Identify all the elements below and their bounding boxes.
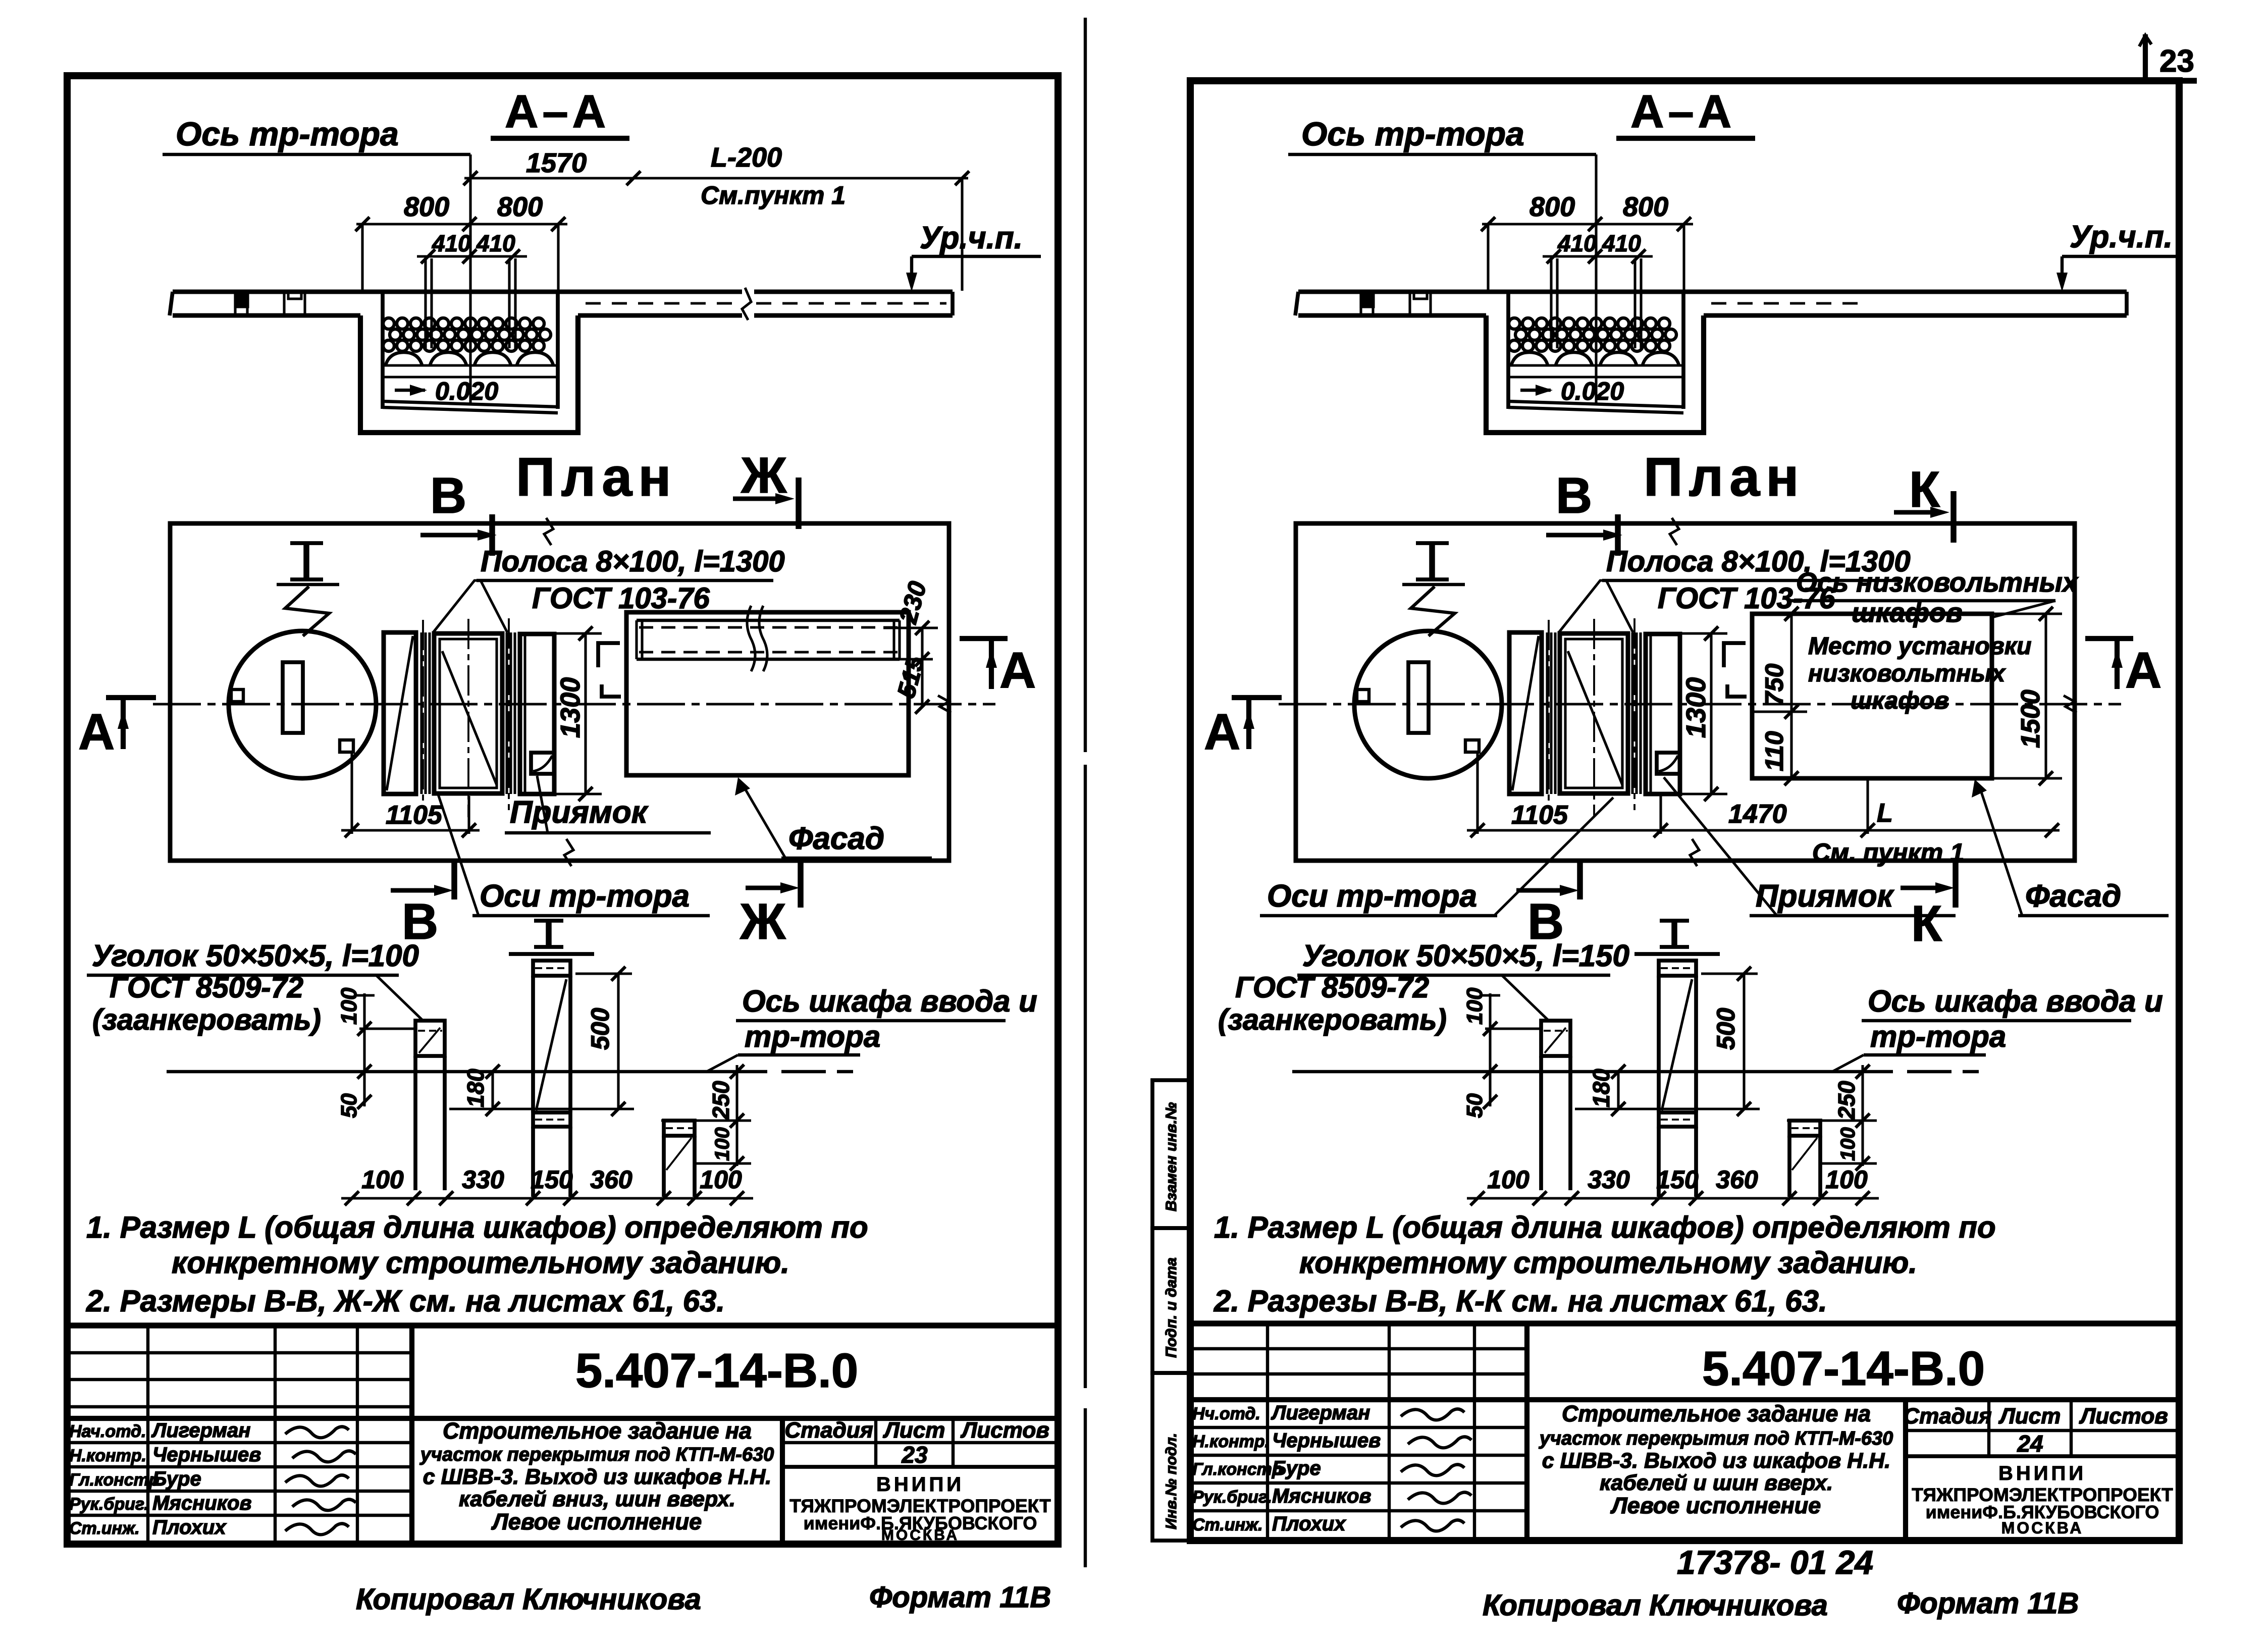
svg-text:конкретному строительному зада: конкретному строительному заданию. — [172, 1246, 789, 1280]
sheet 2 border frame — [1190, 81, 2179, 1541]
svg-text:Нач.отд.: Нач.отд. — [69, 1422, 146, 1441]
svg-text:Мясников: Мясников — [1272, 1485, 1372, 1507]
svg-text:Стадия: Стадия — [1903, 1404, 1991, 1428]
svg-text:23: 23 — [901, 1442, 928, 1468]
detail view left — [92, 961, 1037, 1205]
svg-text:МОСКВА: МОСКВА — [881, 1527, 959, 1544]
svg-text:Левое исполнение: Левое исполнение — [491, 1509, 702, 1534]
dims 230 and 515 — [921, 628, 923, 707]
svg-text:Ось низковольтных: Ось низковольтных — [1796, 567, 2079, 598]
svg-text:участок перекрытия под КТП-М-6: участок перекрытия под КТП-М-630 — [1539, 1428, 1893, 1449]
svg-text:Листов: Листов — [960, 1418, 1049, 1443]
svg-text:Буре: Буре — [152, 1468, 201, 1490]
svg-text:1105: 1105 — [386, 801, 443, 830]
svg-text:Лигерман: Лигерман — [1271, 1402, 1370, 1424]
svg-text:17378- 01 24: 17378- 01 24 — [1677, 1544, 1873, 1581]
section A-A core right — [1288, 86, 1755, 433]
svg-text:2. Размеры В-В, Ж-Ж см. на лис: 2. Размеры В-В, Ж-Ж см. на листах 61, 63… — [86, 1284, 725, 1318]
svg-text:МОСКВА: МОСКВА — [2001, 1519, 2084, 1537]
svg-text:Взамен инв.№: Взамен инв.№ — [1163, 1102, 1180, 1211]
title block right sheet — [1190, 1320, 2179, 1327]
svg-text:Плохих: Плохих — [152, 1516, 227, 1539]
slab dashed centerline right — [586, 302, 741, 304]
floor slab right sheet — [1298, 290, 2127, 294]
svg-text:конкретному строительному зада: конкретному строительному заданию. — [1299, 1246, 1917, 1280]
svg-text:Рук.бриг.: Рук.бриг. — [1192, 1488, 1272, 1507]
dims 1105 1470 L right — [1476, 752, 1479, 834]
svg-text:Уголок 50×50×5, l=150: Уголок 50×50×5, l=150 — [1302, 939, 1629, 973]
svg-text:110: 110 — [1760, 731, 1788, 771]
facade cabinet rectangle — [626, 612, 909, 775]
svg-text:Подп. и дата: Подп. и дата — [1163, 1257, 1180, 1358]
fold line between sheets — [1084, 18, 1087, 752]
dimension 1570 / L-200 — [464, 177, 968, 179]
svg-text:1105: 1105 — [1511, 801, 1568, 830]
svg-text:L-200: L-200 — [711, 142, 782, 173]
svg-text:Ст.инж.: Ст.инж. — [69, 1519, 140, 1538]
svg-text:23: 23 — [2159, 44, 2194, 79]
low-voltage cabinets rectangle — [1752, 614, 1992, 778]
svg-text:1. Размер L (общая длина шкафо: 1. Размер L (общая длина шкафов) определ… — [1214, 1210, 1996, 1244]
svg-text:Фасад: Фасад — [2025, 879, 2121, 914]
svg-text:Н.контр.: Н.контр. — [1192, 1432, 1270, 1451]
svg-text:Формат 11В: Формат 11В — [869, 1581, 1051, 1614]
svg-text:Уголок 50×50×5, l=100: Уголок 50×50×5, l=100 — [92, 939, 419, 973]
svg-text:ВНИПИ: ВНИПИ — [876, 1473, 964, 1496]
svg-text:1500: 1500 — [2016, 690, 2045, 748]
svg-text:2. Разрезы В-В, К-К см. на лис: 2. Разрезы В-В, К-К см. на листах 61, 63… — [1214, 1284, 1827, 1318]
dim 1105 left — [350, 752, 353, 834]
svg-text:750: 750 — [1760, 663, 1788, 706]
svg-text:L: L — [1877, 799, 1893, 828]
title block left sheet — [67, 1322, 1058, 1329]
svg-text:5.407-14-В.0: 5.407-14-В.0 — [1702, 1342, 1985, 1396]
svg-text:участок перекрытия под КТП-М-6: участок перекрытия под КТП-М-630 — [419, 1444, 774, 1465]
svg-text:См. пункт 1: См. пункт 1 — [1812, 838, 1964, 867]
svg-text:План: План — [516, 446, 677, 507]
svg-text:24: 24 — [2017, 1430, 2043, 1457]
svg-text:ВНИПИ: ВНИПИ — [1998, 1462, 2086, 1485]
slab inserts right segment — [1359, 292, 1362, 315]
svg-text:Ур.ч.п.: Ур.ч.п. — [2070, 220, 2173, 254]
dim 1500 — [2044, 614, 2047, 778]
svg-text:Фасад: Фасад — [788, 821, 884, 856]
svg-text:с ШВВ-3. Выход из шкафов Н.Н.: с ШВВ-3. Выход из шкафов Н.Н. — [423, 1465, 771, 1489]
band break waves — [747, 606, 755, 671]
svg-text:Оси тр-тора: Оси тр-тора — [1267, 879, 1477, 914]
svg-text:Оси тр-тора: Оси тр-тора — [480, 879, 690, 914]
slab dashed centerline right sheet — [1711, 302, 1868, 304]
svg-text:Ст.инж.: Ст.инж. — [1192, 1515, 1263, 1534]
svg-text:Рук.бриг.: Рук.бриг. — [69, 1495, 149, 1514]
svg-text:Гл.констр: Гл.констр — [69, 1470, 160, 1490]
plan core right — [1204, 467, 2161, 954]
svg-text:Лист: Лист — [1998, 1404, 2061, 1428]
svg-text:Мясников: Мясников — [152, 1492, 252, 1514]
svg-text:К: К — [1911, 895, 1942, 952]
svg-text:Листов: Листов — [2079, 1404, 2168, 1428]
svg-text:Формат 11В: Формат 11В — [1897, 1587, 2079, 1620]
svg-text:Чернышев: Чернышев — [152, 1444, 261, 1466]
svg-text:кабелей вниз, шин вверх.: кабелей вниз, шин вверх. — [459, 1487, 735, 1511]
section marker Ж bottom — [798, 858, 804, 908]
svg-text:Лигерман: Лигерман — [151, 1419, 250, 1442]
svg-text:Копировал Ключникова: Копировал Ключникова — [356, 1583, 701, 1616]
svg-text:Плохих: Плохих — [1272, 1513, 1346, 1535]
svg-text:5.407-14-В.0: 5.407-14-В.0 — [575, 1344, 858, 1398]
sheet 2 top border overhang — [2179, 78, 2197, 84]
svg-text:шкафов: шкафов — [1852, 598, 1962, 628]
detail view right — [1218, 961, 2163, 1205]
svg-text:Буре: Буре — [1272, 1457, 1321, 1479]
slab break mark — [742, 288, 751, 320]
svg-text:с ШВВ-3. Выход из шкафов Н.Н.: с ШВВ-3. Выход из шкафов Н.Н. — [1542, 1449, 1890, 1473]
margin strip boxes right sheet — [1152, 1080, 1189, 1228]
svg-text:Стадия: Стадия — [784, 1418, 873, 1443]
svg-text:Н.контр.: Н.контр. — [69, 1446, 146, 1465]
section marker K bottom — [1953, 858, 1959, 908]
slab inserts left segment — [234, 292, 236, 315]
section A-A core left — [163, 86, 629, 433]
svg-text:кабелей и шин вверх.: кабелей и шин вверх. — [1600, 1471, 1833, 1495]
svg-text:Нч.отд.: Нч.отд. — [1192, 1404, 1260, 1423]
svg-text:Гл.констр: Гл.констр — [1192, 1460, 1283, 1479]
floor slab left sheet — [173, 290, 742, 294]
svg-text:Лист: Лист — [883, 1418, 945, 1443]
plan core left — [78, 467, 1036, 954]
svg-text:Ж: Ж — [740, 893, 786, 950]
svg-text:шкафов: шкафов — [1851, 687, 1949, 714]
svg-text:Строительное задание на: Строительное задание на — [1562, 1401, 1871, 1426]
svg-text:См.пункт 1: См.пункт 1 — [701, 181, 846, 209]
svg-text:Строительное задание на: Строительное задание на — [443, 1418, 752, 1444]
svg-text:Левое исполнение: Левое исполнение — [1610, 1493, 1821, 1518]
svg-text:Приямок: Приямок — [510, 795, 649, 830]
svg-text:1. Размер L (общая длина шкафо: 1. Размер L (общая длина шкафов) определ… — [86, 1210, 868, 1244]
svg-text:Ур.ч.п.: Ур.ч.п. — [920, 221, 1023, 255]
dims 750 and 110 — [1790, 614, 1792, 778]
svg-text:Копировал Ключникова: Копировал Ключникова — [1483, 1589, 1828, 1622]
svg-text:План: План — [1644, 446, 1805, 507]
svg-text:Место установки: Место установки — [1808, 633, 2031, 660]
page number 23 mark — [2143, 34, 2148, 82]
cabinet top band — [637, 619, 900, 622]
svg-text:Инв.№ подл.: Инв.№ подл. — [1163, 1433, 1180, 1529]
svg-text:1570: 1570 — [526, 148, 587, 178]
svg-text:низковольтных: низковольтных — [1808, 660, 2006, 687]
sheet 1 border frame — [67, 76, 1058, 1544]
svg-text:Приямок: Приямок — [1756, 879, 1894, 914]
svg-text:Чернышев: Чернышев — [1272, 1429, 1381, 1452]
svg-text:1470: 1470 — [1728, 800, 1787, 829]
